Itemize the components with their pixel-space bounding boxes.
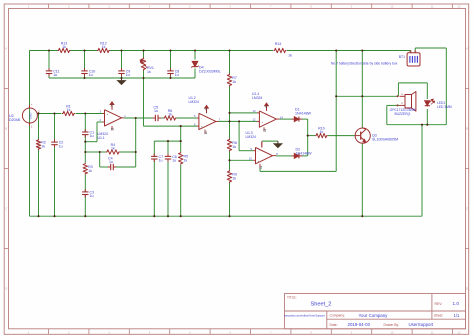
svg-text:Date:: Date: bbox=[330, 323, 338, 327]
svg-text:10: 10 bbox=[390, 330, 393, 334]
svg-text:11: 11 bbox=[111, 127, 115, 131]
resistor R6 bbox=[164, 116, 177, 120]
svg-text:D: D bbox=[466, 287, 468, 291]
capacitor C8 bbox=[170, 68, 172, 71]
op-amp U1.2 LM324 bbox=[199, 113, 216, 129]
U1.4 pin11 stub bbox=[263, 127, 265, 131]
resistor R2 bbox=[36, 139, 40, 150]
svg-text:2019-04-03: 2019-04-03 bbox=[348, 322, 371, 327]
svg-text:-: - bbox=[258, 149, 259, 153]
svg-text:Sheet:: Sheet: bbox=[434, 314, 443, 318]
svg-text:1k: 1k bbox=[41, 145, 45, 149]
svg-text:easyeda.com/editor/UserSupport: easyeda.com/editor/UserSupport bbox=[284, 314, 325, 318]
svg-text:1k: 1k bbox=[102, 45, 106, 49]
resistor R5 bbox=[179, 152, 183, 165]
wire branch to U1.3 pin9 bbox=[238, 121, 240, 150]
wire R2 column bbox=[38, 114, 40, 140]
wire battery minus return bbox=[445, 48, 447, 125]
capacitor C6 bbox=[167, 154, 169, 157]
U1.3 pin4 stub bbox=[261, 142, 263, 148]
wire R3 C3 column to ground rail bbox=[84, 152, 86, 163]
op-amp U1.4 LM324 bbox=[259, 111, 276, 127]
svg-text:1u: 1u bbox=[89, 73, 93, 77]
svg-text:B: B bbox=[5, 127, 7, 131]
resistor R14 bbox=[274, 48, 287, 52]
resistor R9 bbox=[227, 170, 231, 183]
wire feedback vertical from U1.1 output bbox=[135, 118, 137, 152]
wire signal mic to R1 to U1.1 pin3 bbox=[40, 113, 62, 115]
wire C5 to R6 to U1.2 pin6 bbox=[158, 117, 163, 119]
resistor R1 bbox=[62, 111, 75, 115]
wire filter bottom rail bbox=[49, 77, 195, 79]
zener diode D4 bbox=[192, 61, 198, 66]
wire C9 column bbox=[121, 51, 123, 71]
svg-text:10: 10 bbox=[390, 5, 393, 9]
svg-text:1u: 1u bbox=[159, 159, 163, 163]
wire R7 R8 divider column bbox=[229, 51, 231, 74]
LED LED1 bbox=[425, 101, 430, 106]
svg-text:1k: 1k bbox=[232, 80, 236, 84]
wire battery plus stub bbox=[410, 50, 412, 53]
svg-text:1k: 1k bbox=[168, 112, 172, 116]
svg-text:1u: 1u bbox=[172, 159, 176, 163]
svg-text:REV:: REV: bbox=[435, 302, 443, 306]
junction dots bbox=[48, 49, 50, 51]
svg-text:BUZZER(1: BUZZER(1 bbox=[394, 112, 410, 116]
wire cluster top node bbox=[154, 140, 180, 142]
wire U1.2 output to U1.4 pin12 bbox=[219, 120, 258, 122]
resistor R7 bbox=[227, 74, 231, 87]
capacitor C3 bbox=[84, 189, 86, 192]
svg-text:11: 11 bbox=[263, 128, 267, 132]
svg-text:Company:: Company: bbox=[330, 314, 346, 318]
capacitor C9 bbox=[121, 68, 123, 71]
wire C2 column bbox=[54, 114, 56, 143]
svg-text:R14: R14 bbox=[275, 42, 282, 46]
wire to U1.4 pin13 bbox=[230, 112, 258, 114]
wire Q3 emitter to ground rail bbox=[361, 143, 363, 216]
svg-text:A: A bbox=[5, 47, 7, 51]
diode D1 bbox=[294, 117, 299, 122]
svg-text:1u: 1u bbox=[90, 194, 94, 198]
svg-text:-: - bbox=[201, 117, 202, 121]
resistor R12 bbox=[97, 48, 110, 52]
svg-text:-: - bbox=[416, 50, 417, 53]
ground flag at U1.3 feedback bbox=[277, 141, 279, 144]
U1.3 pin11 stub bbox=[259, 164, 261, 168]
capacitor C2 bbox=[54, 139, 56, 142]
svg-text:B: B bbox=[466, 127, 468, 131]
wire buzzer pin1 feed bbox=[336, 95, 397, 97]
svg-text:UserSupport: UserSupport bbox=[409, 322, 434, 327]
wire C7 column bbox=[153, 141, 155, 156]
ground flag under C9 bbox=[121, 78, 123, 81]
potentiometer RV1 bbox=[141, 58, 145, 71]
capacitor C4 bbox=[108, 166, 111, 168]
capacitor C5 bbox=[153, 117, 156, 119]
svg-text:12: 12 bbox=[458, 330, 461, 334]
svg-text:1.0: 1.0 bbox=[453, 301, 460, 306]
capacitor C11 bbox=[48, 68, 50, 71]
diode D2 bbox=[294, 154, 299, 159]
wire buzzer pin2 loop to bottom net bbox=[387, 104, 400, 106]
op-amp U1.1 LM324 bbox=[105, 110, 122, 126]
svg-text:1k: 1k bbox=[184, 159, 188, 163]
buzzer BZ1 bbox=[400, 95, 406, 97]
svg-text:1u: 1u bbox=[90, 134, 94, 138]
wire U1.3 output to D2 bbox=[276, 155, 292, 157]
wire U1.3 pin11 return bbox=[259, 168, 261, 171]
resistor R4 bbox=[106, 150, 120, 154]
wire U1.1 output node bbox=[124, 117, 155, 119]
U1.1 pin11 stub bbox=[111, 126, 113, 130]
svg-text:LM324: LM324 bbox=[189, 100, 199, 104]
wire VCC drop column bbox=[335, 51, 337, 172]
wire VCC top rail bbox=[30, 50, 58, 52]
svg-text:LM324: LM324 bbox=[246, 135, 256, 139]
svg-text:U1.1: U1.1 bbox=[98, 136, 105, 140]
svg-text:TITLE:: TITLE: bbox=[287, 295, 297, 299]
wire D1 D2 join vertical bbox=[307, 119, 309, 156]
wire R8-R9 node to U1.3 pin10 bbox=[230, 159, 254, 161]
wire mic to ground rail bbox=[29, 122, 31, 216]
capacitor C10 bbox=[84, 68, 86, 71]
svg-text:11: 11 bbox=[431, 5, 434, 9]
capacitor C1 bbox=[84, 129, 86, 132]
capacitor C7 bbox=[153, 154, 155, 157]
svg-text:1/1: 1/1 bbox=[454, 313, 460, 318]
svg-text:GND: GND bbox=[28, 112, 32, 120]
wire R4 C4 feedback network frame bbox=[85, 151, 99, 153]
resistor R13 bbox=[58, 48, 71, 52]
title block bbox=[285, 294, 466, 329]
battery BT1 bbox=[407, 53, 420, 66]
resistor R10 bbox=[315, 133, 328, 137]
svg-text:12: 12 bbox=[458, 5, 461, 9]
wire R5 column bbox=[180, 126, 182, 152]
wire RV1 column bbox=[143, 51, 145, 58]
svg-text:1k: 1k bbox=[88, 169, 92, 173]
svg-text:DZ2J033M0L: DZ2J033M0L bbox=[199, 69, 221, 73]
microphone U2 bbox=[22, 108, 37, 123]
svg-text:1u: 1u bbox=[126, 73, 130, 77]
wire U1.3 feedback to gnd flag bbox=[261, 142, 263, 148]
svg-text:-: - bbox=[261, 112, 262, 116]
svg-text:C: C bbox=[466, 207, 468, 211]
wire Q3 collector column bbox=[361, 51, 363, 129]
svg-text:1k: 1k bbox=[67, 108, 71, 112]
svg-text:Your Company: Your Company bbox=[359, 313, 389, 318]
svg-text:Drawn By:: Drawn By: bbox=[384, 323, 400, 327]
svg-text:1u: 1u bbox=[53, 73, 57, 77]
svg-text:1k: 1k bbox=[288, 54, 292, 58]
wire R10 to Q3 base bbox=[308, 135, 315, 137]
svg-text:1u: 1u bbox=[59, 144, 63, 148]
svg-text:1u: 1u bbox=[175, 73, 179, 77]
svg-text:SL100SA0605M: SL100SA0605M bbox=[372, 137, 398, 141]
svg-text:No.7 battery3Section side by s: No.7 battery3Section side by side batter… bbox=[331, 61, 398, 65]
svg-text:BT1: BT1 bbox=[399, 55, 405, 59]
wire U1.4 output to D1 bbox=[280, 118, 292, 120]
svg-text:1k: 1k bbox=[111, 146, 115, 150]
resistor R8 bbox=[227, 139, 231, 152]
wire C11 column bbox=[48, 51, 50, 71]
svg-text:11: 11 bbox=[431, 330, 434, 334]
wire LED cathode down bbox=[426, 109, 428, 125]
svg-text:LED 3MM: LED 3MM bbox=[437, 105, 452, 109]
svg-text:LM324: LM324 bbox=[252, 96, 262, 100]
transistor Q3 bbox=[355, 128, 370, 143]
U1.1 pin4 VCC arrow bbox=[111, 105, 113, 110]
wire RV1 down to U1.2 pin5 wire bbox=[143, 78, 145, 126]
U1.2 pin4 VCC arrow bbox=[206, 108, 208, 113]
op-amp U1.3 LM324 bbox=[256, 148, 273, 164]
wire D4 column bbox=[194, 51, 196, 60]
U1.4 pin4 VCC arrow bbox=[266, 106, 268, 111]
svg-text:D204B: D204B bbox=[9, 118, 21, 122]
svg-text:1k: 1k bbox=[232, 145, 236, 149]
wire C6 column bbox=[167, 141, 169, 156]
svg-text:1k: 1k bbox=[232, 177, 236, 181]
svg-text:11: 11 bbox=[204, 131, 208, 135]
svg-text:1k: 1k bbox=[320, 130, 324, 134]
svg-text:Sheet_2: Sheet_2 bbox=[311, 301, 332, 307]
svg-text:1u: 1u bbox=[109, 160, 113, 164]
wire C1 branch from signal bbox=[84, 114, 86, 132]
wire buzzer pin1 up and over to LED bbox=[397, 83, 399, 96]
resistor R3 bbox=[83, 163, 87, 175]
svg-text:A: A bbox=[466, 47, 468, 51]
wire left vertical from top rail to mic bbox=[29, 51, 31, 109]
U1.2 pin11 stub bbox=[204, 130, 206, 134]
wire C8 column bbox=[170, 51, 172, 71]
svg-text:1N4148W: 1N4148W bbox=[295, 111, 312, 115]
svg-text:11: 11 bbox=[259, 165, 263, 169]
wire bottom net down to ground rail bbox=[421, 125, 423, 217]
svg-text:1k: 1k bbox=[147, 70, 151, 74]
svg-text:-: - bbox=[107, 121, 108, 125]
wire C10 column bbox=[84, 51, 86, 71]
svg-text:1k: 1k bbox=[62, 45, 66, 49]
wire U1.1 pin2 to C1 bottom node bbox=[85, 141, 97, 143]
wire bottom ground rail bbox=[30, 215, 423, 217]
svg-text:D: D bbox=[5, 287, 7, 291]
svg-text:C: C bbox=[5, 207, 7, 211]
svg-text:1u: 1u bbox=[154, 109, 158, 113]
svg-text:1N4148W: 1N4148W bbox=[296, 152, 313, 156]
